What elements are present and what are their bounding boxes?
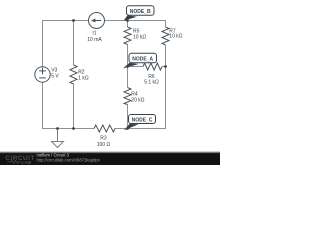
resistor R6 xyxy=(143,63,162,70)
node NODE_A label box xyxy=(129,53,157,63)
junction dot node C xyxy=(126,127,129,130)
resistor R2 xyxy=(70,65,77,84)
wire: R5 to node A lead xyxy=(127,45,129,67)
svg-text:5.1 kΩ: 5.1 kΩ xyxy=(144,79,159,85)
label I1 value xyxy=(87,31,102,44)
wire: R2 branch upper lead xyxy=(73,21,75,66)
label V3 value xyxy=(51,68,59,80)
wire: R5 branch upper lead xyxy=(127,21,129,28)
svg-text:10 kΩ: 10 kΩ xyxy=(133,35,146,41)
resistor R5 xyxy=(124,27,131,45)
junction dot top R2 xyxy=(72,19,75,22)
svg-text:http://circuitlab.com/c/6872ka: http://circuitlab.com/c/6872kapdpv xyxy=(37,158,101,163)
svg-text:I1: I1 xyxy=(92,31,96,37)
svg-text:20 kΩ: 20 kΩ xyxy=(131,97,144,103)
svg-text:1 kΩ: 1 kΩ xyxy=(78,76,89,82)
svg-text:10 kΩ: 10 kΩ xyxy=(169,33,182,39)
resistor R7 xyxy=(162,27,169,45)
label R5 value xyxy=(133,29,146,41)
wire: bottom-left horizontal segment xyxy=(42,128,94,130)
wire: R4 lower lead xyxy=(127,105,129,129)
footer CircuitLab logo xyxy=(5,155,35,166)
svg-text:NODE_B: NODE_B xyxy=(130,9,151,15)
wire: top-left horizontal segment xyxy=(43,20,89,22)
label R7 value xyxy=(169,29,182,40)
junction dot ground xyxy=(56,127,59,130)
label R3 value xyxy=(97,136,111,149)
svg-text:5 V: 5 V xyxy=(51,74,59,80)
junction dot bottom R2 xyxy=(72,127,75,130)
wire: left branch vertical upper xyxy=(42,20,44,67)
wire: left branch vertical lower xyxy=(42,82,44,129)
svg-text:NODE_C: NODE_C xyxy=(132,118,153,124)
node NODE_B label box xyxy=(127,6,155,16)
wire: R6 right lead xyxy=(162,66,166,68)
label R4 value xyxy=(131,91,144,103)
svg-text:R3: R3 xyxy=(100,136,107,142)
label R6 value xyxy=(144,74,159,85)
svg-text:LAB: LAB xyxy=(22,160,32,165)
wire: right branch vertical lower xyxy=(165,45,167,129)
svg-text:100 Ω: 100 Ω xyxy=(97,142,111,148)
node NODE_B flag pointer xyxy=(124,15,138,21)
wire: bottom-right horizontal segment xyxy=(115,128,166,130)
node NODE_A flag pointer xyxy=(123,63,139,69)
label R2 value xyxy=(78,70,89,82)
junction dot node A xyxy=(126,65,129,68)
node NODE_C flag pointer xyxy=(124,124,139,131)
svg-text:NODE_A: NODE_A xyxy=(132,56,153,62)
current source I1 xyxy=(89,13,105,29)
voltage source V3 xyxy=(35,67,50,82)
wire: right branch upper lead xyxy=(165,20,167,27)
resistor R3 xyxy=(94,125,115,132)
wire: R4 upper lead xyxy=(127,67,129,88)
junction dot node B xyxy=(126,19,129,22)
svg-text:10 mA: 10 mA xyxy=(87,37,102,43)
footer bar xyxy=(0,152,220,165)
wire: top-right horizontal segment xyxy=(105,20,166,22)
wire: R2 branch lower lead xyxy=(73,84,75,129)
node NODE_C label box xyxy=(129,115,156,124)
wire: R6 left lead xyxy=(128,66,144,68)
junction dot R6-R7 xyxy=(164,65,167,68)
ground xyxy=(52,129,64,148)
resistor R4 xyxy=(124,88,131,105)
